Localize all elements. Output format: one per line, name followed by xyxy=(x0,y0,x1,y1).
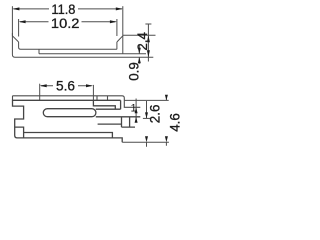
svg-text:5.6: 5.6 xyxy=(56,78,75,93)
bottom view inner left tab lines xyxy=(15,127,113,138)
top view right lip diagonal xyxy=(117,36,123,42)
dimension 5.6 extension line right xyxy=(92,85,94,100)
svg-text:1: 1 xyxy=(131,102,137,114)
bottom view finger line y109 xyxy=(96,108,121,110)
bottom view slot (stadium) xyxy=(43,109,96,117)
arrow 11.8 right xyxy=(116,7,123,10)
arrow 2.4 top xyxy=(147,35,150,42)
dimension 2.4 line with top tick xyxy=(145,24,151,62)
dimension 10.2 extension line right xyxy=(116,19,118,36)
arrow 10.2 left xyxy=(19,20,26,23)
bottom view right lower block xyxy=(98,117,135,127)
dimension 2.4 top extension line xyxy=(123,34,156,36)
arrow 4.6 top xyxy=(165,95,168,101)
dimension 1 line tails xyxy=(135,99,137,123)
bottom view outer outline: top edge, left staircase end, bottom edge, right step down xyxy=(13,100,123,142)
top view right outer wall xyxy=(122,35,124,54)
bottom view finger line y117 extended xyxy=(96,116,141,118)
dimension 0.9 line lower tail xyxy=(138,57,140,64)
arrow 2.6 top xyxy=(145,112,148,118)
arrow 0.9 bottom xyxy=(138,57,141,63)
bottom view finger vertical right xyxy=(120,100,122,109)
dimension 10.2 line xyxy=(20,21,116,23)
bottom view spring finger upper edge xyxy=(93,100,115,109)
dimension 4.6 top extension (top edge extended) xyxy=(124,99,168,101)
dimension 5.6 extension line left xyxy=(39,84,41,101)
arrow 11.8 left xyxy=(12,7,19,10)
arrow 1 top xyxy=(135,107,138,113)
dimension 0.9 line upper tail xyxy=(138,45,140,54)
bottom view upper contour line (lip edge seen from above) xyxy=(13,96,141,108)
top view right inner wall xyxy=(116,42,118,49)
top view left lip diagonal xyxy=(12,36,18,42)
dimension 2.6 top extension xyxy=(143,117,151,119)
arrow 4.6 bottom xyxy=(165,136,168,142)
top view base top line xyxy=(39,53,146,55)
arrow 2.4 bottom xyxy=(147,50,150,57)
dimension 4.6 line tails xyxy=(165,96,167,146)
dimension 4.6 bottom extension xyxy=(122,141,169,143)
top view base step xyxy=(38,49,40,54)
svg-text:11.8: 11.8 xyxy=(51,2,75,17)
arrow 0.9 top xyxy=(138,48,141,54)
svg-text:2.4: 2.4 xyxy=(135,31,150,50)
dimension 11.8 extension line right xyxy=(122,6,124,35)
top view left inner wall and spring top line xyxy=(19,42,117,49)
dimension 5.6 line xyxy=(41,85,92,87)
svg-text:2.6: 2.6 xyxy=(148,105,163,124)
arrow 2.6 bottom xyxy=(145,136,148,142)
arrow 10.2 right xyxy=(110,20,117,23)
arrow 5.6 right xyxy=(86,84,93,87)
svg-text:0.9: 0.9 xyxy=(127,62,142,81)
svg-text:10.2: 10.2 xyxy=(51,16,80,31)
dimension 11.8 extension line left xyxy=(11,6,13,36)
arrow 1 bottom xyxy=(135,117,138,123)
dimension 2.6 line xyxy=(146,101,148,147)
svg-text:4.6: 4.6 xyxy=(167,113,180,132)
dimension 10.2 extension line left xyxy=(18,19,20,37)
dimension 11.8 line xyxy=(14,8,123,10)
top view outer left wall and bottom line xyxy=(12,33,153,57)
arrow 5.6 left xyxy=(40,84,47,87)
